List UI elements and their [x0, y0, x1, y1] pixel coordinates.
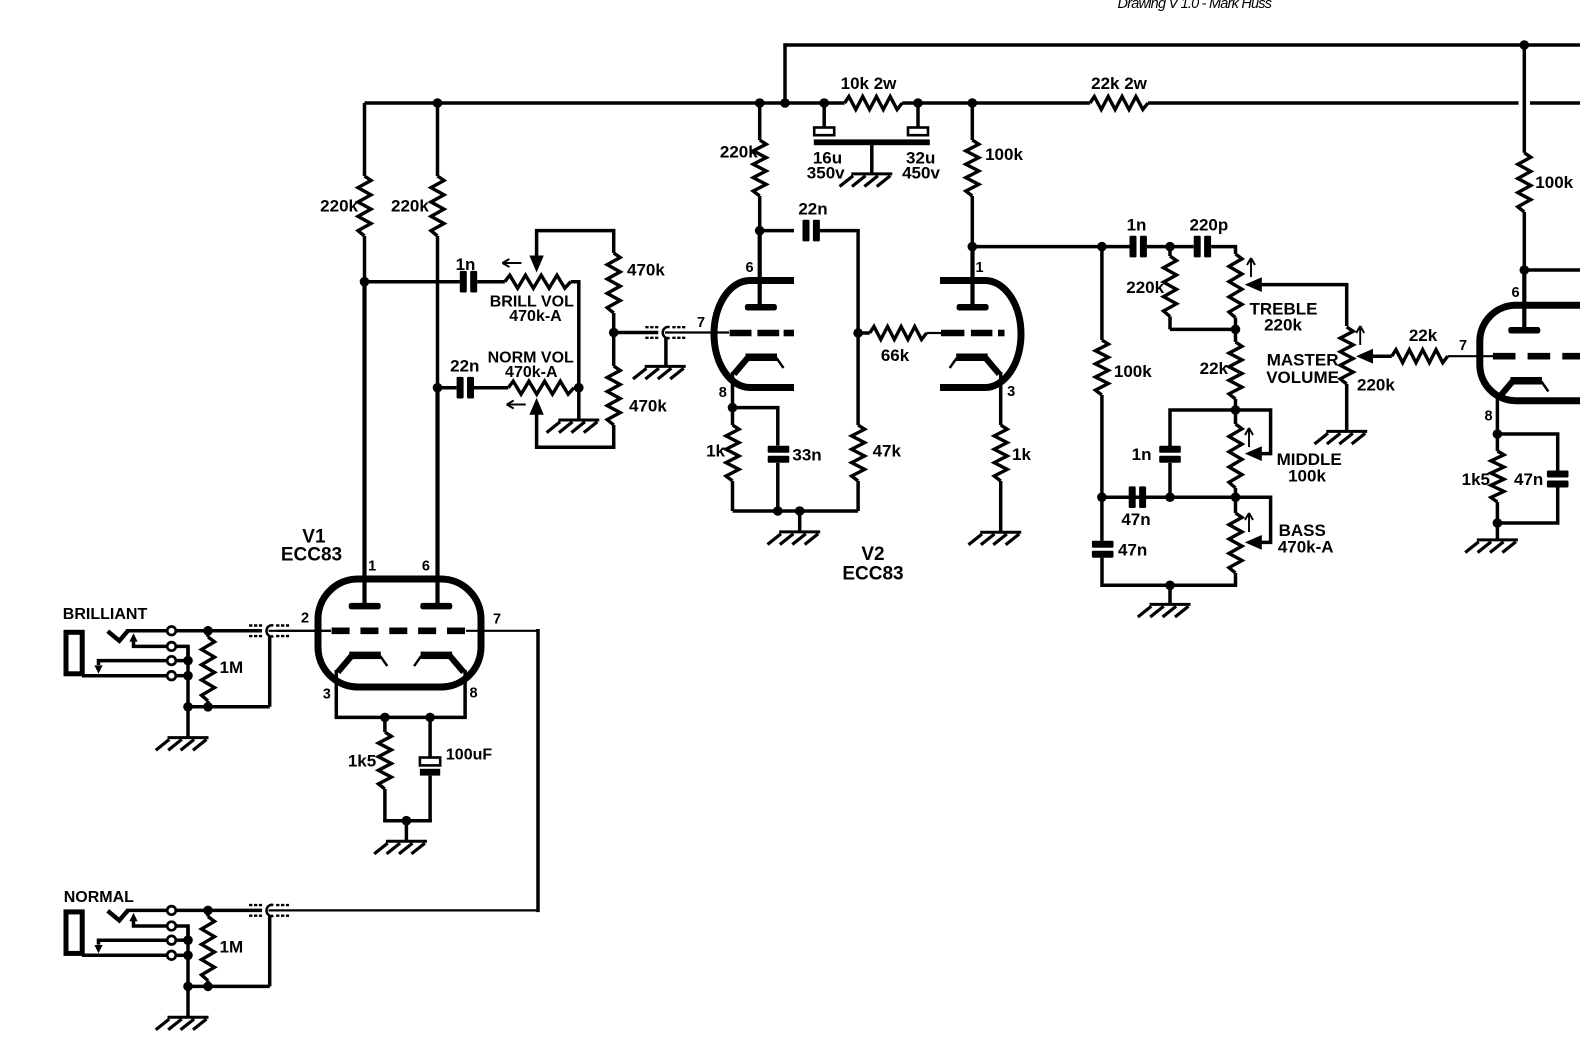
- contact arrow down: [94, 665, 102, 673]
- svg-text:V2: V2: [861, 544, 884, 565]
- wire nrow2 elbow: [176, 926, 188, 940]
- wire norm shield stem: [268, 916, 272, 986]
- resistor 22k 2w: [1090, 97, 1148, 110]
- label 1k V2B: [1012, 445, 1031, 464]
- wire 47n2 bottom lead: [1100, 558, 1104, 587]
- wire cathode gnd stem: [405, 821, 409, 841]
- junction row4 bus: [183, 671, 193, 681]
- tube V2B envelope: [940, 281, 1021, 388]
- label ECC83 V2: [842, 564, 903, 585]
- label 220k tone: [1126, 278, 1164, 297]
- junction norm pot gnd node: [574, 383, 584, 393]
- junction nrow4 bus: [183, 951, 193, 961]
- wire V2A grid pin7: [665, 331, 729, 333]
- wire norm gnd stem: [577, 388, 581, 419]
- resistor 470k mix lower: [607, 333, 620, 425]
- junction rail-32u: [913, 98, 923, 108]
- label MASTER: [1267, 350, 1339, 369]
- label 1n middle: [1132, 445, 1152, 464]
- wire V2B cathode lead: [999, 372, 1003, 425]
- label 47n shunt: [1118, 541, 1147, 560]
- label 100k V3: [1535, 173, 1573, 192]
- pin label 3: [323, 687, 331, 703]
- junction V1b plate node: [433, 383, 443, 393]
- label 220k treble: [1264, 316, 1302, 335]
- svg-text:7: 7: [1459, 338, 1467, 354]
- wire HT rail segment D (after crossover gap): [1530, 101, 1580, 105]
- wire pin3 lead: [335, 670, 339, 717]
- arrow middle direction: [1245, 428, 1253, 447]
- ground V2A cathode: [768, 532, 821, 545]
- potentiometer BRILL VOL 470k-A: [505, 275, 571, 288]
- wire master bottom: [1345, 391, 1349, 431]
- tube V1 ECC83 envelope: [318, 579, 481, 687]
- label 470k-A brill: [509, 308, 562, 325]
- junction rail-16u: [819, 98, 829, 108]
- junction treble bottom: [1231, 325, 1241, 335]
- wire V2A plate lead: [758, 231, 762, 306]
- resistor 220k tone bypass: [1164, 247, 1177, 330]
- plate V2A: [745, 304, 777, 311]
- svg-text:66k: 66k: [881, 346, 910, 365]
- pin label 8 V2A: [719, 385, 727, 401]
- svg-text:470k-A: 470k-A: [509, 308, 562, 325]
- wire njack gnd bus vertical: [186, 926, 190, 986]
- wire norm pot right end: [574, 386, 579, 390]
- terminal circle 3: [167, 656, 176, 665]
- label 220k V1a: [320, 197, 358, 216]
- wire jack gnd bottom: [188, 705, 270, 709]
- resistor 10k 2w: [845, 97, 903, 110]
- svg-text:1: 1: [975, 260, 983, 276]
- capacitor 47n tone shunt: [1092, 541, 1114, 558]
- label 220k master: [1357, 376, 1395, 395]
- svg-text:ECC83: ECC83: [281, 544, 342, 565]
- wire stack in to 1n: [1102, 245, 1130, 249]
- svg-text:22k: 22k: [1409, 326, 1438, 345]
- ground electrolytics: [840, 174, 893, 187]
- label 33n: [792, 446, 821, 465]
- capacitor 22n V2A coupling: [803, 220, 820, 242]
- wire row1 to 1M: [176, 629, 262, 633]
- junction 66k node: [853, 328, 863, 338]
- svg-text:22n: 22n: [450, 357, 479, 376]
- terminal circle 1: [167, 627, 176, 636]
- wire njack row1: [126, 909, 167, 913]
- wire cap-to-pot: [477, 280, 505, 284]
- wire HT rail segment B: [902, 101, 1090, 105]
- junction row3 bus: [183, 656, 193, 666]
- resistor 1M normal: [202, 910, 215, 986]
- svg-text:100k: 100k: [985, 145, 1023, 164]
- junction top-rail V3 feed: [1520, 40, 1530, 50]
- label 22k tone: [1200, 359, 1229, 378]
- svg-text:22k: 22k: [1200, 359, 1229, 378]
- svg-text:Drawing V 1.0 - Mark Huss: Drawing V 1.0 - Mark Huss: [1118, 0, 1272, 12]
- junction n1M bottom: [203, 982, 213, 992]
- junction V2B plate node: [968, 242, 978, 252]
- wire V2A cathode lead: [731, 372, 735, 408]
- ground NORMAL jack: [156, 1017, 209, 1030]
- label 470k lower: [629, 397, 667, 416]
- wire 66k to V2B grid: [927, 332, 941, 334]
- label 1k5 V3: [1462, 470, 1490, 489]
- junction rail-220k2: [433, 98, 443, 108]
- wire V3 gnd stem: [1496, 523, 1500, 539]
- resistor 220k V1b plate: [431, 103, 444, 388]
- capacitor 16u/32u shared negative plate: [814, 139, 930, 145]
- junction rail-V2A-220k: [755, 98, 765, 108]
- label V2: [861, 544, 884, 565]
- junction V2A cathode node: [728, 403, 738, 413]
- svg-text:1: 1: [368, 559, 376, 575]
- svg-text:6: 6: [745, 260, 753, 276]
- junction 220k top: [1165, 242, 1175, 252]
- resistor 1k V2B: [994, 425, 1007, 531]
- wire node to 220p: [1170, 245, 1194, 249]
- resistor 100k V2B plate: [966, 103, 979, 247]
- junction mixing node: [609, 328, 619, 338]
- wire 33n bottom lead: [776, 463, 780, 511]
- junction 33n gnd: [773, 506, 783, 516]
- svg-text:220k: 220k: [720, 143, 758, 162]
- resistor 100k tone slope: [1095, 247, 1108, 498]
- plate V1a: [349, 603, 381, 610]
- plate V1b: [420, 603, 452, 610]
- svg-text:1M: 1M: [220, 937, 244, 956]
- wire V3 plate lead: [1522, 270, 1526, 330]
- wire V2B out to stack: [972, 245, 1102, 249]
- plate V2B: [957, 304, 989, 311]
- svg-text:47n: 47n: [1514, 470, 1543, 489]
- junction bass top: [1231, 492, 1241, 502]
- wire row3 to bus: [176, 659, 188, 663]
- resistor 1k5 V3: [1491, 434, 1504, 523]
- pin label 7 V3: [1459, 338, 1467, 354]
- wiper master: [1356, 349, 1392, 364]
- svg-text:33n: 33n: [792, 446, 821, 465]
- label V1: [302, 526, 326, 547]
- svg-text:NORMAL: NORMAL: [64, 889, 134, 906]
- pin label 7 V2A: [697, 315, 705, 331]
- svg-text:7: 7: [697, 315, 705, 331]
- svg-text:220k: 220k: [1264, 316, 1302, 335]
- wire B+ top rail: [785, 43, 1580, 47]
- label TREBLE: [1250, 300, 1318, 319]
- resistor 1M brilliant: [202, 631, 215, 707]
- contact arrow up n: [129, 913, 167, 926]
- junction cathode gnd: [402, 816, 412, 826]
- svg-text:1n: 1n: [1132, 445, 1152, 464]
- svg-text:1k5: 1k5: [1462, 470, 1490, 489]
- svg-text:VOLUME: VOLUME: [1266, 368, 1339, 387]
- terminal circle n1: [167, 906, 176, 915]
- jack NORMAL body: [66, 912, 82, 954]
- junction stack input: [1097, 242, 1107, 252]
- capacitor 1n brill: [460, 271, 477, 293]
- label 1M brilliant: [220, 658, 244, 677]
- junction V3 cathode node: [1493, 429, 1503, 439]
- svg-text:450v: 450v: [902, 164, 940, 183]
- wiper bass: [1236, 497, 1271, 550]
- wire V2B plate lead: [970, 247, 974, 306]
- wire 100uF bottom lead: [428, 776, 432, 823]
- cathode V2B: [950, 354, 1000, 375]
- contact arrow up: [129, 633, 167, 646]
- wire row3: [99, 661, 168, 665]
- ground master volume: [1315, 431, 1368, 444]
- junction 1k5 top: [380, 713, 390, 723]
- svg-text:220k: 220k: [1126, 278, 1164, 297]
- wire 33n branch: [733, 408, 778, 446]
- wire B+ riser: [783, 43, 787, 103]
- svg-text:6: 6: [422, 559, 430, 575]
- junction V2A plate node: [755, 226, 765, 236]
- label NORM VOL: [488, 349, 574, 366]
- terminal circle 2: [167, 642, 176, 651]
- wire row4 to bus: [176, 674, 188, 678]
- svg-text:350v: 350v: [807, 164, 845, 183]
- wire HT rail segment A: [365, 101, 845, 105]
- label 22n norm: [450, 357, 479, 376]
- wire 47n row: [1102, 495, 1236, 499]
- label VOLUME: [1266, 368, 1339, 387]
- wire V3 cathode lead: [1496, 395, 1500, 434]
- potentiometer TREBLE 220k: [1229, 254, 1242, 329]
- wire brill gnd stem: [186, 707, 190, 737]
- shielded cable NORMAL: [249, 905, 289, 916]
- capacitor 22n norm: [457, 377, 474, 399]
- svg-text:ECC83: ECC83: [842, 564, 903, 585]
- label 450v: [902, 164, 940, 183]
- ground shield V2A: [633, 366, 686, 379]
- resistor 22k tone: [1229, 329, 1242, 410]
- svg-text:7: 7: [493, 611, 501, 627]
- pin label 8 V3: [1484, 409, 1492, 425]
- ground BRILLIANT jack: [156, 738, 209, 751]
- potentiometer NORM VOL 470k-A: [508, 381, 574, 394]
- svg-text:100uF: 100uF: [446, 747, 492, 764]
- label MIDDLE: [1277, 450, 1342, 469]
- wire V2A cathode gnd bus: [733, 509, 859, 513]
- resistor 220k V2A plate: [753, 103, 766, 231]
- grid V1 dashes: [332, 627, 466, 634]
- capacitor 47n tone series: [1129, 486, 1146, 508]
- ground V3 cathode: [1465, 540, 1518, 553]
- label 1n tone: [1127, 216, 1147, 235]
- junction n1M top: [203, 906, 213, 916]
- wire 1n2 bottom: [1168, 463, 1172, 497]
- ground V2B cathode: [969, 532, 1022, 545]
- cathode V1a: [338, 652, 388, 673]
- junction 100uF top: [425, 713, 435, 723]
- svg-text:6: 6: [1511, 285, 1519, 301]
- capacitor 100uF positive plate: [420, 758, 440, 766]
- wire brill-cap feed: [365, 280, 460, 284]
- svg-text:22n: 22n: [798, 200, 827, 219]
- label ECC83 V1: [281, 544, 342, 565]
- pin label 6 V2A: [745, 260, 753, 276]
- wire 22k to V3 grid: [1448, 355, 1493, 357]
- jack BRILLIANT tip contact: [108, 631, 128, 641]
- junction njack gnd left: [183, 982, 193, 992]
- svg-text:220k: 220k: [391, 197, 429, 216]
- junction rail-riser: [780, 98, 790, 108]
- resistor 100k V3 plate: [1518, 45, 1531, 270]
- cathode V1b: [414, 652, 464, 673]
- wire electrolytic ground stem: [870, 145, 874, 173]
- pin label 1 V2B: [975, 260, 983, 276]
- svg-text:100k: 100k: [1114, 362, 1152, 381]
- wire treble wiper to master: [1345, 283, 1349, 326]
- label 470k-A norm: [505, 364, 558, 381]
- wire njack gnd bottom: [188, 985, 270, 989]
- terminal circle n4: [167, 951, 176, 960]
- label 16u: [813, 149, 842, 168]
- junction V3 cathode gnd: [1493, 518, 1503, 528]
- contact arrow down n: [94, 945, 102, 953]
- pin 2 wire: [277, 630, 331, 632]
- grid V3 dashes: [1493, 353, 1580, 360]
- wire cap-to-pot norm: [474, 386, 508, 390]
- wire norm gnd stem: [186, 986, 190, 1016]
- wire nrow1 to 1M: [176, 909, 262, 913]
- pin label 8 V1: [469, 685, 477, 701]
- wire V3 plate branch right: [1524, 268, 1580, 272]
- junction slope bottom: [1097, 492, 1107, 502]
- wire brill shield stem: [268, 637, 272, 707]
- pin label 6: [422, 559, 430, 575]
- ground tone stack: [1138, 604, 1191, 617]
- shielded cable BRILLIANT: [249, 625, 289, 636]
- wiper middle: [1236, 410, 1271, 461]
- svg-text:10k 2w: 10k 2w: [841, 74, 898, 93]
- wire normal to V1 pin7 riser: [536, 631, 538, 911]
- label 1k V2A: [706, 442, 725, 461]
- label 100k middle: [1288, 467, 1326, 486]
- ground norm vol: [547, 420, 600, 433]
- wire jack row1: [126, 629, 167, 633]
- svg-text:100k: 100k: [1535, 173, 1573, 192]
- svg-text:47n: 47n: [1121, 510, 1150, 529]
- resistor 1k V2A: [726, 408, 739, 511]
- svg-text:3: 3: [1007, 384, 1015, 400]
- svg-text:22k 2w: 22k 2w: [1091, 74, 1148, 93]
- wire V1a plate lead: [362, 282, 366, 606]
- wire V2A gnd stem: [798, 511, 802, 531]
- label 47n V3: [1514, 470, 1543, 489]
- wire nshield to riser: [269, 909, 537, 911]
- svg-text:470k-A: 470k-A: [505, 364, 558, 381]
- svg-text:8: 8: [719, 385, 727, 401]
- terminal circle n2: [167, 922, 176, 931]
- label BRILL VOL: [490, 294, 574, 311]
- label 1M normal: [220, 937, 244, 956]
- junction nrow3 bus: [183, 935, 193, 945]
- junction 1n2 bottom: [1165, 492, 1175, 502]
- wire tone gnd bus: [1102, 584, 1236, 588]
- wire shield to V1 pin2: [269, 630, 331, 632]
- svg-text:MASTER: MASTER: [1267, 350, 1339, 369]
- junction tone gnd: [1165, 581, 1175, 591]
- wire tone gnd stem: [1168, 585, 1172, 603]
- shielded cable V2A grid: [645, 327, 685, 338]
- grid V2B dashes: [941, 330, 1005, 337]
- svg-text:8: 8: [1484, 409, 1492, 425]
- svg-text:100k: 100k: [1288, 467, 1326, 486]
- svg-text:220p: 220p: [1190, 216, 1229, 235]
- resistor 22k V3 grid: [1392, 350, 1448, 363]
- svg-text:2: 2: [301, 610, 309, 626]
- resistor 1k5 V1: [378, 717, 391, 822]
- label 100uF: [446, 747, 492, 764]
- tube V2A envelope: [714, 281, 794, 388]
- arrow treble direction: [1247, 258, 1255, 277]
- svg-text:47k: 47k: [873, 442, 902, 461]
- potentiometer MIDDLE 100k: [1229, 410, 1242, 497]
- junction rail-100k-V2B: [968, 98, 978, 108]
- wire 47n V3 bottom: [1497, 488, 1557, 524]
- wire 22n feed: [760, 229, 794, 233]
- wire shield stem V2A: [664, 338, 668, 366]
- title text: [1118, 0, 1272, 12]
- wire 47n V3 branch: [1497, 434, 1557, 471]
- wire pin8 lead: [463, 670, 467, 717]
- cathode V2A: [734, 354, 784, 375]
- svg-text:1M: 1M: [220, 658, 244, 677]
- wire HT rail segment C: [1148, 101, 1519, 105]
- junction 1M bottom: [203, 702, 213, 712]
- label 100k slope: [1114, 362, 1152, 381]
- label NORMAL: [64, 889, 134, 906]
- wire 1n to node: [1147, 245, 1170, 249]
- svg-text:3: 3: [323, 687, 331, 703]
- capacitor 1n middle: [1159, 446, 1181, 463]
- label 220k V1b: [391, 197, 429, 216]
- wire sleeve row4: [82, 674, 167, 678]
- svg-text:1n: 1n: [1127, 216, 1147, 235]
- grid V2A dashes: [730, 330, 794, 337]
- svg-text:470k: 470k: [629, 397, 667, 416]
- svg-text:220k: 220k: [1357, 376, 1395, 395]
- label BASS: [1279, 521, 1326, 540]
- wire 22n to 47k top: [820, 231, 858, 333]
- pin label 2: [301, 610, 309, 626]
- wire cathode bus V1: [335, 716, 467, 720]
- capacitor 33n: [768, 446, 790, 463]
- arrow norm direction: [507, 401, 526, 409]
- label 22k V3 grid: [1409, 326, 1438, 345]
- jack BRILLIANT body: [66, 632, 82, 674]
- resistor 66k: [858, 327, 927, 340]
- capacitor 47n V3: [1547, 471, 1569, 488]
- wire 16u lead: [822, 103, 826, 129]
- svg-text:1n: 1n: [456, 255, 476, 274]
- tube V3 envelope: [1480, 305, 1580, 400]
- wire jack gnd bus vertical: [186, 646, 190, 706]
- svg-text:BRILLIANT: BRILLIANT: [63, 606, 148, 623]
- wiper brill vol: [529, 231, 613, 273]
- label 32u: [906, 149, 935, 168]
- arrow bass direction: [1245, 513, 1253, 532]
- label 66k: [881, 346, 910, 365]
- wire nrow3 to bus: [176, 938, 188, 942]
- wire brill pot right end: [571, 282, 579, 388]
- junction middle top: [1231, 405, 1241, 415]
- ground V1 cathode: [374, 841, 427, 854]
- wire mix to shield: [614, 331, 659, 335]
- svg-text:470k-A: 470k-A: [1278, 537, 1334, 556]
